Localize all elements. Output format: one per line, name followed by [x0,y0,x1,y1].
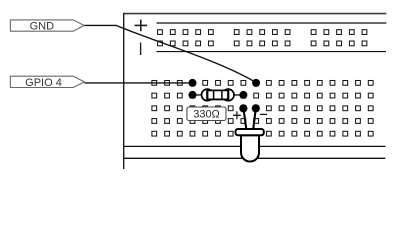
label tag GND [10,20,84,33]
svg-text:GND: GND [30,21,55,33]
wire GND (tag tip to breadboard) [84,25,256,82]
label tag GPIO 4 [10,76,84,89]
breadboard bottom rail line [157,51,387,53]
breadboard channel line lower [124,157,386,159]
breadboard channel line upper [124,145,386,147]
power rail holes [158,30,367,46]
LED D1 body [241,135,259,161]
breadboard top rail line [157,22,387,24]
resistor R1 body [202,89,235,101]
LED D1 leg dot cathode [252,104,260,112]
svg-text:330Ω: 330Ω [193,109,220,121]
LED D1 leg dot anode [239,104,247,112]
breadboard left edge [123,13,125,169]
junction dot GPIO4 wire end [189,79,197,87]
LED D1 plus mark [233,111,241,119]
rail plus symbol [135,20,148,32]
breadboard top edge [124,13,387,15]
resistor R1 terminal dot right [239,91,247,99]
wire GPIO4 (tag tip to breadboard) [85,82,193,84]
LED D1 legs [243,108,255,129]
resistor R1 330ohm leads [193,94,244,96]
LED D1 minus mark [260,113,267,115]
main strip holes [152,81,373,137]
junction dot GND wire end [252,79,260,87]
rail minus symbol (rotated) [140,43,142,56]
LED D1 flange [236,129,264,135]
value label 330ohm box [187,107,226,121]
resistor R1 terminal dot left [189,91,197,99]
svg-text:GPIO 4: GPIO 4 [25,77,62,89]
